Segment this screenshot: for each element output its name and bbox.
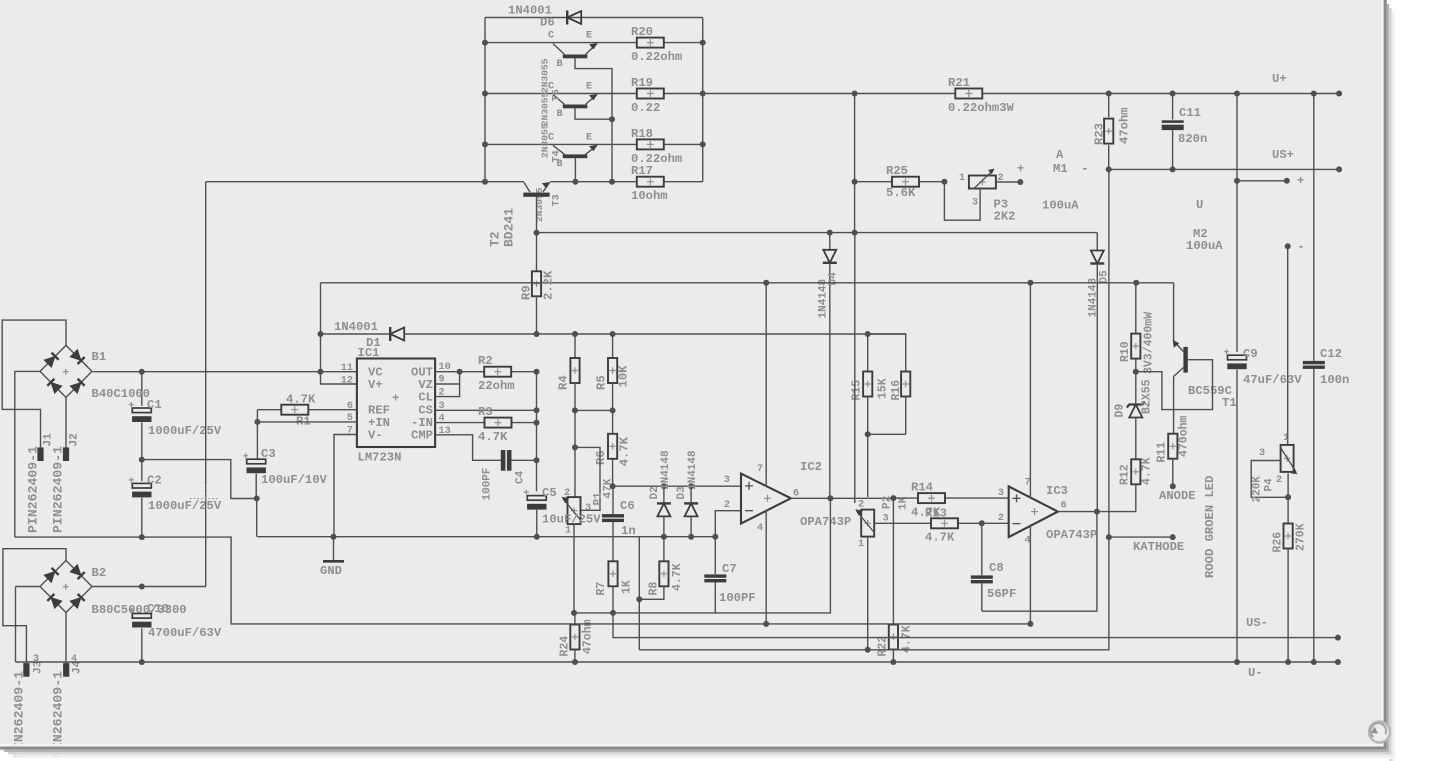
wire bbox=[1172, 94, 1174, 120]
label C7 bbox=[722, 562, 737, 576]
page shadow right bbox=[1387, 4, 1396, 761]
wire rail US- bbox=[613, 613, 1338, 638]
label D2 bbox=[649, 486, 661, 499]
wire M2- drop bbox=[1287, 246, 1289, 444]
wire P2 pin1 bbox=[867, 537, 869, 650]
pin number 2 bbox=[998, 513, 1004, 524]
svg-text:7: 7 bbox=[757, 464, 763, 475]
meter M1 bbox=[1053, 148, 1068, 176]
svg-text:3: 3 bbox=[972, 198, 978, 209]
wire bbox=[256, 499, 258, 537]
wire C8 to IC3 fb bbox=[982, 512, 1097, 612]
terminal U+ bbox=[1336, 91, 1342, 97]
svg-text:BD241: BD241 bbox=[502, 208, 517, 247]
pin name +IN bbox=[368, 416, 390, 430]
svg-text:1N4148: 1N4148 bbox=[660, 450, 672, 490]
wire bbox=[575, 58, 612, 181]
label 1K (R7) bbox=[621, 580, 634, 594]
transistor 2N3055 (T4) bbox=[553, 94, 598, 108]
svg-text:R5: R5 bbox=[595, 375, 609, 390]
junction bbox=[700, 40, 706, 46]
wire pin2 dogleg bbox=[715, 511, 741, 537]
resistor R8 bbox=[659, 537, 668, 587]
pin label 3 bbox=[883, 514, 889, 525]
svg-text:+: + bbox=[1017, 162, 1024, 176]
resistor R23 bbox=[1104, 119, 1113, 144]
junction bbox=[318, 369, 324, 375]
wire opamp supply rail bbox=[321, 282, 1174, 284]
capacitor C6 bbox=[602, 486, 624, 561]
junction bbox=[827, 230, 833, 236]
svg-text:R15: R15 bbox=[851, 380, 864, 401]
svg-text:6: 6 bbox=[1061, 501, 1067, 512]
svg-text:4: 4 bbox=[757, 523, 763, 534]
junction bbox=[1027, 621, 1033, 627]
diode D6 bbox=[567, 11, 581, 25]
label 5.6K bbox=[886, 186, 916, 200]
pin number 4 bbox=[1025, 536, 1031, 547]
wire bbox=[206, 181, 524, 183]
label 56PF bbox=[987, 587, 1016, 601]
svg-text:R9: R9 bbox=[520, 285, 534, 300]
svg-text:0.22: 0.22 bbox=[631, 101, 660, 115]
wire B1 ac1 route bbox=[2, 320, 66, 447]
label B80C5000/3300 bbox=[92, 603, 187, 617]
wire P1 wiper dogleg bbox=[575, 447, 600, 510]
junction bbox=[1106, 91, 1112, 97]
svg-text:PIN262409-1: PIN262409-1 bbox=[26, 446, 41, 533]
svg-text:C10: C10 bbox=[147, 602, 169, 616]
wire R8 bottom dogleg bbox=[639, 586, 664, 599]
diode D3 bbox=[684, 486, 698, 537]
svg-text:B: B bbox=[557, 109, 563, 120]
label LM723N bbox=[358, 451, 402, 465]
label 22ohm bbox=[478, 379, 515, 393]
label R25 bbox=[886, 164, 908, 178]
resistor R12 bbox=[1131, 459, 1140, 511]
pin name REF bbox=[368, 404, 390, 418]
wire B2 minus route bbox=[16, 586, 41, 588]
svg-text:J1: J1 bbox=[43, 433, 55, 447]
svg-text:4.7K: 4.7K bbox=[618, 436, 632, 466]
diode D2 bbox=[657, 486, 671, 537]
resistor R26 bbox=[1284, 524, 1293, 663]
pin label 1 bbox=[565, 526, 571, 537]
junction bbox=[688, 534, 694, 540]
junction bbox=[661, 483, 667, 489]
svg-text:R23: R23 bbox=[1093, 123, 1107, 145]
label 2N3055 (T4) bbox=[540, 92, 551, 127]
svg-text:OPA743P: OPA743P bbox=[800, 515, 851, 529]
svg-text:1: 1 bbox=[858, 539, 864, 550]
svg-text:C9: C9 bbox=[1243, 347, 1258, 361]
junction bbox=[572, 331, 578, 337]
wire -IN row bbox=[435, 422, 536, 424]
label 4.7K (R6) bbox=[618, 436, 632, 466]
svg-text:4: 4 bbox=[71, 654, 77, 665]
junction bbox=[1170, 91, 1176, 97]
label IC1 bbox=[358, 346, 380, 360]
svg-text:PIN262409-1: PIN262409-1 bbox=[51, 446, 66, 533]
label 1000uF/25V bbox=[148, 499, 222, 513]
svg-text:2: 2 bbox=[1276, 475, 1282, 486]
label 100PF bbox=[482, 467, 494, 500]
junction bbox=[688, 483, 694, 489]
label - (M2) bbox=[1297, 239, 1305, 254]
svg-text:R4: R4 bbox=[557, 375, 571, 390]
capacitor C12 bbox=[1303, 361, 1325, 369]
label R4 bbox=[557, 375, 571, 390]
pin name V- bbox=[368, 429, 383, 443]
junction bbox=[534, 420, 540, 426]
junction bbox=[254, 419, 260, 425]
label R10 bbox=[1119, 341, 1132, 362]
wire bbox=[868, 433, 906, 435]
svg-text:T1: T1 bbox=[1222, 396, 1237, 410]
junction bbox=[572, 407, 578, 413]
svg-text:CL: CL bbox=[418, 391, 433, 405]
pin number 6 bbox=[347, 401, 353, 412]
svg-text:47ohm: 47ohm bbox=[1118, 107, 1132, 144]
svg-text:10K: 10K bbox=[617, 365, 631, 388]
junction bbox=[1311, 91, 1317, 97]
wire IC2 out bbox=[791, 497, 831, 499]
pin label E bbox=[586, 31, 592, 42]
wire IC3 V- drop bbox=[1029, 525, 1031, 624]
pin number 3 bbox=[439, 401, 445, 412]
pin label 1 bbox=[858, 539, 864, 550]
svg-text:C7: C7 bbox=[722, 562, 737, 576]
pin name VZ bbox=[418, 378, 433, 392]
label R19 bbox=[631, 76, 653, 90]
svg-text:US-: US- bbox=[1246, 616, 1268, 630]
junction bbox=[1285, 659, 1291, 665]
svg-text:C5: C5 bbox=[542, 486, 557, 500]
svg-text:C4: C4 bbox=[515, 470, 527, 484]
junction bbox=[1311, 659, 1317, 665]
wire bbox=[1236, 94, 1238, 353]
pin label 2 bbox=[858, 500, 864, 511]
label 47uF/63V bbox=[1243, 373, 1302, 387]
junction bbox=[139, 457, 145, 463]
junction bbox=[827, 495, 833, 501]
junction bbox=[865, 647, 871, 653]
wire bbox=[575, 108, 612, 119]
label 1000uF/25V bbox=[148, 424, 222, 438]
resistor R19 bbox=[637, 89, 664, 99]
wire CS row bbox=[435, 409, 536, 411]
svg-text:M1: M1 bbox=[1053, 162, 1068, 176]
label C12 bbox=[1320, 347, 1342, 361]
label OPA743P (IC2) bbox=[800, 515, 851, 529]
svg-text:2N3055: 2N3055 bbox=[540, 58, 551, 93]
wire bbox=[1236, 370, 1238, 662]
resistor R9 bbox=[532, 233, 541, 334]
svg-text:R19: R19 bbox=[631, 76, 653, 90]
resistor R24 bbox=[570, 613, 579, 662]
label PIN262409-1 (J2) bbox=[51, 446, 66, 533]
svg-text:820n: 820n bbox=[1178, 132, 1207, 146]
svg-text:4.7K: 4.7K bbox=[901, 625, 914, 653]
terminal US- bbox=[1335, 635, 1341, 641]
svg-text:4700uF/63V: 4700uF/63V bbox=[148, 626, 222, 640]
wire R16 top dogleg bbox=[868, 334, 906, 371]
pot P2 1K bbox=[855, 509, 875, 536]
svg-text:IC2: IC2 bbox=[800, 460, 822, 474]
capacitor C5 bbox=[524, 490, 547, 540]
svg-text:4.7K: 4.7K bbox=[671, 563, 684, 591]
svg-text:22ohm: 22ohm bbox=[478, 379, 515, 393]
capacitor C4 bbox=[501, 450, 512, 471]
wire rail common bbox=[15, 537, 1031, 624]
svg-text:56PF: 56PF bbox=[987, 587, 1016, 601]
wire bbox=[639, 537, 1109, 650]
wire bbox=[141, 372, 143, 406]
label 100n bbox=[1320, 373, 1349, 387]
svg-text:100uA: 100uA bbox=[1042, 199, 1079, 213]
wire out to P2/R14 bbox=[830, 497, 893, 499]
junction bbox=[534, 230, 540, 236]
label R18 bbox=[631, 127, 653, 141]
label 10uF/25V bbox=[542, 513, 601, 527]
wire VZ dogleg bbox=[435, 372, 460, 384]
pin number 3 bbox=[998, 488, 1004, 499]
pin number 7 bbox=[1025, 478, 1031, 489]
wire CMP dogleg bbox=[435, 435, 501, 461]
label R21 bbox=[948, 76, 970, 90]
svg-text:100n: 100n bbox=[1320, 373, 1349, 387]
wire P4 pin3 loop bbox=[1251, 461, 1288, 498]
svg-text:10ohm: 10ohm bbox=[631, 189, 668, 203]
label C9 bbox=[1243, 347, 1258, 361]
svg-text:100PF: 100PF bbox=[482, 467, 494, 500]
label R16 bbox=[890, 380, 903, 401]
svg-text:2.2K: 2.2K bbox=[542, 270, 556, 300]
label J4 bbox=[72, 660, 84, 674]
svg-text:1: 1 bbox=[1283, 433, 1289, 444]
junction bbox=[852, 91, 858, 97]
junction bbox=[941, 179, 947, 185]
svg-text:+: + bbox=[63, 367, 70, 379]
pot P3 2K2 bbox=[969, 169, 996, 190]
junction bbox=[572, 179, 578, 185]
pin label B bbox=[557, 109, 563, 120]
svg-text:R20: R20 bbox=[631, 25, 653, 39]
svg-text:CMP: CMP bbox=[411, 429, 433, 443]
label C10 bbox=[147, 602, 169, 616]
svg-text:C11: C11 bbox=[1179, 106, 1201, 120]
label OPA743P (IC3) bbox=[1046, 528, 1097, 542]
label 0.22ohm bbox=[631, 152, 682, 166]
pin label E bbox=[586, 132, 592, 143]
svg-text:R3: R3 bbox=[478, 405, 493, 419]
svg-text:270K: 270K bbox=[1295, 523, 1308, 551]
pot P1 47K bbox=[562, 447, 582, 524]
label PIN262409-1 (p3) bbox=[12, 671, 27, 758]
svg-text:R24: R24 bbox=[559, 636, 572, 657]
label 100uA (M2) bbox=[1186, 239, 1223, 253]
wire bbox=[1108, 94, 1110, 118]
label 4 bbox=[71, 654, 77, 665]
label IC2 bbox=[800, 460, 822, 474]
resistor R18 bbox=[637, 139, 664, 149]
resistor R10 bbox=[1131, 283, 1140, 372]
junction bbox=[139, 534, 145, 540]
label R15 bbox=[851, 380, 864, 401]
resistor R11 bbox=[1168, 434, 1177, 487]
label T3 bbox=[552, 194, 563, 206]
label 2N3055 (driver) bbox=[534, 187, 545, 222]
junction bbox=[254, 496, 260, 502]
junction bbox=[763, 280, 769, 286]
wire bbox=[256, 422, 258, 459]
pin label C bbox=[548, 31, 554, 42]
svg-text:+: + bbox=[392, 392, 399, 406]
pin name OUT bbox=[411, 366, 433, 380]
wire bbox=[1287, 473, 1289, 523]
label R6 bbox=[594, 450, 608, 465]
wire GND rail bbox=[257, 536, 715, 538]
svg-text:15K: 15K bbox=[877, 378, 890, 399]
wire B1+ to VC bbox=[93, 371, 357, 373]
junction bbox=[700, 141, 706, 147]
resistor R20 bbox=[637, 38, 664, 48]
svg-text:B1: B1 bbox=[92, 350, 107, 364]
wire B2+ riser bbox=[205, 182, 207, 587]
svg-text:5.6K: 5.6K bbox=[886, 186, 916, 200]
svg-text:R22: R22 bbox=[877, 636, 890, 657]
junction bbox=[1027, 280, 1033, 286]
svg-text:U+: U+ bbox=[1272, 72, 1287, 86]
svg-text:E: E bbox=[586, 132, 592, 143]
wire bbox=[15, 587, 17, 663]
transistor T1 BC559C bbox=[1173, 340, 1188, 377]
svg-text:-: - bbox=[1297, 239, 1305, 254]
wire KATHODE bbox=[1109, 536, 1173, 538]
label + (M2) bbox=[1297, 174, 1304, 188]
resistor R17 bbox=[637, 177, 664, 187]
label P3 bbox=[994, 198, 1009, 212]
label J2 bbox=[69, 433, 81, 446]
pin name CMP bbox=[411, 429, 433, 443]
svg-text:R11: R11 bbox=[1156, 442, 1169, 463]
label 1N4148 (D5) bbox=[1088, 277, 1100, 317]
svg-text:U: U bbox=[1196, 198, 1203, 212]
junction bbox=[661, 534, 667, 540]
label 10ohm bbox=[631, 189, 668, 203]
wire bbox=[141, 460, 143, 482]
svg-text:3V3/400mW: 3V3/400mW bbox=[1143, 312, 1156, 374]
connector pin J1 bbox=[37, 447, 43, 461]
svg-text:OPA743P: OPA743P bbox=[1046, 528, 1097, 542]
wire P2 wiper row bbox=[874, 522, 1009, 524]
wire bbox=[485, 42, 703, 44]
resistor R16 bbox=[901, 372, 910, 435]
pin number 2 bbox=[439, 387, 445, 398]
label T5 bbox=[552, 89, 563, 101]
svg-text:4.7K: 4.7K bbox=[286, 393, 316, 407]
label D9 bbox=[1114, 404, 1127, 418]
label R22 bbox=[877, 636, 890, 657]
svg-text:47uF/63V: 47uF/63V bbox=[1243, 373, 1302, 387]
label R12 bbox=[1119, 464, 1132, 485]
wire ref column bbox=[536, 372, 538, 461]
svg-text:GND: GND bbox=[320, 564, 342, 578]
label BD241 bbox=[502, 208, 517, 247]
svg-text:1N4001: 1N4001 bbox=[334, 320, 378, 334]
diode D1 bbox=[390, 327, 404, 341]
svg-text:1K: 1K bbox=[621, 580, 634, 594]
svg-text:2: 2 bbox=[858, 500, 864, 511]
svg-text:13: 13 bbox=[439, 426, 451, 437]
pin label B bbox=[557, 159, 563, 170]
svg-text:1: 1 bbox=[959, 173, 965, 184]
label - (M1) bbox=[1081, 161, 1089, 176]
svg-text:2: 2 bbox=[564, 488, 570, 499]
wire bbox=[855, 181, 945, 183]
svg-text:12: 12 bbox=[341, 375, 353, 386]
wire B2 plus row bbox=[92, 586, 206, 588]
label R5 bbox=[595, 375, 609, 390]
resistor R22 bbox=[889, 498, 898, 662]
svg-text:R26: R26 bbox=[1272, 532, 1285, 553]
svg-text:-: - bbox=[1081, 161, 1089, 176]
pin number 6 bbox=[1061, 501, 1067, 512]
svg-text:C3: C3 bbox=[261, 447, 276, 461]
pin number 11 bbox=[341, 363, 353, 374]
svg-text:2N3055: 2N3055 bbox=[540, 92, 551, 127]
capacitor C3 bbox=[243, 453, 266, 473]
label P4 bbox=[1264, 478, 1276, 492]
wire +IN net bbox=[613, 485, 741, 487]
transistor 2N3055 (T5) bbox=[553, 43, 598, 58]
label R9 bbox=[520, 285, 534, 300]
IC1 plus mark bbox=[392, 392, 399, 406]
junction bbox=[534, 457, 540, 463]
svg-text:11: 11 bbox=[341, 363, 353, 374]
svg-text:E: E bbox=[586, 82, 592, 93]
svg-text:+: + bbox=[1297, 174, 1304, 188]
wire bbox=[532, 282, 542, 284]
svg-text:100PF: 100PF bbox=[719, 591, 756, 605]
junction bbox=[139, 659, 145, 665]
wire D1 row left bbox=[321, 333, 391, 335]
bridge rectifier B2 bbox=[40, 561, 92, 613]
svg-text:ROOD GROEN LED: ROOD GROEN LED bbox=[1203, 476, 1217, 578]
junction bbox=[457, 369, 463, 375]
junction bbox=[1234, 178, 1240, 184]
wire bbox=[485, 143, 703, 145]
wire bbox=[141, 422, 143, 459]
label 47K bbox=[603, 478, 615, 498]
junction bbox=[534, 369, 540, 375]
junction bbox=[572, 444, 578, 450]
junction bbox=[610, 483, 616, 489]
wire bbox=[1313, 369, 1315, 662]
label 3V3/400mW bbox=[1143, 312, 1156, 374]
svg-text:2: 2 bbox=[998, 513, 1004, 524]
label 2N3055 (T5) bbox=[540, 58, 551, 93]
wire bbox=[512, 459, 537, 461]
wire bbox=[1172, 130, 1174, 170]
resistor R14 bbox=[918, 493, 945, 503]
svg-text:C6: C6 bbox=[620, 499, 635, 513]
label U+ bbox=[1272, 72, 1287, 86]
terminal M1 plus bbox=[1017, 179, 1023, 185]
pin label 1 bbox=[1283, 433, 1289, 444]
pin label E bbox=[586, 82, 592, 93]
pin number 5 bbox=[347, 413, 353, 424]
